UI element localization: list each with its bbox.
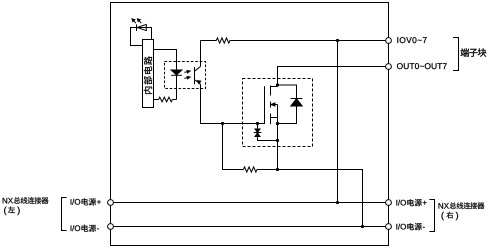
optocoupler LED [171, 70, 182, 100]
node diode-source junction [276, 122, 279, 125]
wire indicator LED loop [131, 28, 152, 46]
node junction rail/IOV drop [336, 39, 339, 42]
node drain/diode junction [276, 83, 279, 86]
label I/O power+ left [71, 198, 101, 205]
wire gate feed [223, 123, 265, 125]
indicator LED D1 [137, 24, 147, 31]
label 端子块 (terminal block) [461, 48, 487, 56]
node zener-source junction [276, 139, 279, 142]
wire I/O power- bus [111, 226, 389, 228]
optocoupler light arrows [184, 71, 190, 79]
label NX bus connector (left) [3, 197, 49, 215]
internal circuit block U1 [143, 40, 154, 108]
terminal circle I/O power- left [108, 224, 114, 230]
label NX bus connector (right) [439, 202, 485, 220]
wire I/O power+ bus [111, 202, 389, 204]
wire source drop [277, 118, 279, 170]
zener Z1 (gate-source) [254, 124, 278, 141]
wire IOV drop to I/O power+ bus [337, 41, 339, 203]
terminal circle IOV0~7 [386, 38, 392, 44]
MOSFET Q2 [265, 85, 278, 124]
diode D2 (drain-source) [278, 85, 303, 124]
resistor R3 (gate-source) [243, 167, 257, 172]
indicator LED light arrows [132, 19, 141, 23]
node junction on I/O power- bus [361, 225, 364, 228]
terminal circle I/O power- right [386, 224, 392, 230]
wire OUT terminal to MOSFET drain [278, 67, 389, 86]
terminal circle OUT0~OUT7 [386, 64, 392, 70]
label I/O power- left [71, 225, 99, 232]
wire source to I/O power- bus [278, 170, 363, 227]
wire U1 to optocoupler LED anode [154, 50, 177, 71]
terminal circle I/O power+ right [386, 200, 392, 206]
label OUT0~OUT7 [397, 63, 403, 69]
resistor R1 (LED cathode) [154, 97, 177, 102]
bracket left connector [62, 198, 67, 231]
wire Q1 emitter drop [201, 84, 223, 123]
optocoupler U2 dashed box [165, 62, 206, 89]
label 内部电路 (internal circuit) [144, 56, 152, 94]
label IOV0~7 [380, 37, 415, 43]
wire bottom line to source node [257, 169, 278, 171]
node gate junction [221, 122, 224, 125]
node zener top junction [256, 122, 259, 125]
wire gate junction to bottom line [223, 124, 244, 170]
wire top rail to IOV terminal [201, 40, 389, 42]
bracket right connector [429, 200, 434, 232]
MOSFET Q2 dashed box [243, 79, 313, 147]
node source/bottom junction [276, 168, 279, 171]
node junction on I/O power+ bus [336, 201, 339, 204]
terminal circle I/O power+ left [108, 200, 114, 206]
wire Q1 collector riser [200, 41, 202, 67]
label I/O power- right [396, 223, 424, 230]
label I/O power+ right [396, 199, 426, 206]
resistor R2 (IOV rail) [216, 38, 230, 43]
bracket terminal block [453, 38, 459, 71]
module outer box [111, 3, 389, 246]
phototransistor Q1 [195, 66, 201, 84]
